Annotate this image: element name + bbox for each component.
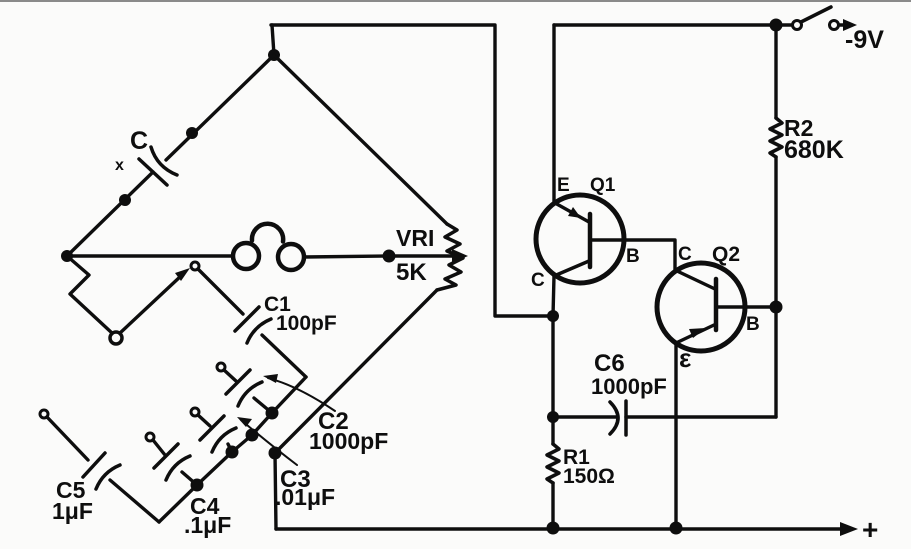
svg-text:C: C [130, 127, 148, 155]
node Q2 emitter bottom [670, 522, 683, 535]
capacitor C6 curved plate [610, 402, 618, 434]
leader arrowhead C3 [237, 417, 252, 427]
lamp right circle [278, 244, 304, 270]
capacitor C3 curved plate [212, 428, 236, 452]
node top junction [268, 49, 280, 61]
bottom rail arrowhead [840, 522, 858, 536]
capacitor C2 curved plate [238, 382, 262, 406]
capacitor C3 terminal circle [191, 408, 199, 416]
wire lamp to wiper node [304, 256, 389, 257]
capacitor C2 lead [224, 370, 236, 381]
node left [61, 250, 73, 262]
Q1 emitter inner line [555, 203, 589, 222]
Q2 emitter arrowhead [689, 328, 706, 338]
svg-text:Q2: Q2 [712, 243, 740, 266]
svg-text:C: C [531, 270, 545, 291]
leader arrow C2 [268, 378, 335, 411]
svg-text:.1μF: .1μF [184, 512, 231, 538]
capacitor C5 curved plate [96, 465, 120, 489]
capacitor C1 straight plate [235, 307, 259, 331]
wire diagonal upper-left to capacitor C [166, 55, 274, 160]
capacitor C6 right wire [626, 415, 776, 418]
capacitor C5 lead [47, 417, 88, 460]
transistor Q1 circle [536, 195, 624, 283]
capacitor C5 terminal circle [40, 410, 48, 418]
svg-text:B: B [626, 246, 640, 267]
svg-text:C: C [678, 244, 692, 265]
svg-text:VRI: VRI [396, 225, 434, 251]
svg-text:B: B [746, 314, 760, 335]
lamp left circle [233, 243, 259, 269]
terminal open circle bottom-left [110, 332, 122, 344]
svg-text:+: + [862, 514, 878, 545]
svg-text:ε: ε [679, 343, 691, 373]
wire R1 to bottom rail [551, 483, 554, 528]
capacitor C1 out wire to corner [262, 335, 306, 377]
Q1 collector lead [553, 276, 554, 316]
svg-text:680K: 680K [784, 136, 844, 164]
node wiper wire [383, 250, 396, 263]
capacitor C6 left wire [553, 415, 616, 418]
switch lever [801, 7, 831, 22]
wire R2 to Q2 base node [774, 157, 777, 307]
potentiometer VR1 zigzag [437, 224, 463, 290]
Q1 base bar [588, 214, 593, 267]
switch arrow to -9V [839, 23, 844, 26]
capacitor C2 terminal circle [217, 363, 225, 371]
node C4 junction [191, 479, 204, 492]
capacitor C1 curved plate [247, 319, 271, 343]
capacitor C4 out wire [182, 472, 197, 485]
lamp top loop [252, 224, 283, 242]
svg-text:C6: C6 [594, 350, 625, 377]
Q1 collector inner line [554, 261, 589, 276]
wiper arrowhead [452, 249, 468, 263]
node vertical top [269, 447, 282, 460]
wire top-right rail [554, 23, 794, 26]
Q2 emitter lead to bottom rail [674, 343, 677, 528]
svg-text:1000pF: 1000pF [591, 374, 667, 399]
Q2 emitter inner line [676, 325, 714, 343]
capacitor C4 terminal circle [146, 433, 154, 441]
node C2 junction [266, 407, 279, 420]
capacitor C4 lead [153, 440, 165, 455]
Q2 collector inner line [677, 271, 715, 289]
svg-text:5K: 5K [396, 259, 427, 286]
transistor Q2 circle [657, 263, 745, 351]
capacitor C4 curved plate [166, 456, 190, 480]
wire left horizontal [67, 254, 233, 257]
svg-text:E: E [557, 175, 570, 196]
resistor R1 zigzag [547, 444, 559, 483]
wire top-left rail [271, 25, 553, 316]
capacitor C1 lead [198, 269, 243, 314]
wire stub top junction [272, 25, 274, 55]
capacitor C5 straight plate [83, 453, 105, 477]
node C6 left [547, 411, 559, 423]
capacitor C2 out wire [254, 398, 272, 413]
node Q1 collector junction [547, 310, 559, 322]
capacitor C curved plate [151, 147, 177, 175]
node C3 junction [226, 446, 239, 459]
svg-text:.01μF: .01μF [275, 484, 335, 510]
switch pole circle [793, 21, 802, 30]
capacitor C3 straight plate [200, 416, 224, 440]
leader arrow C3 [241, 420, 297, 465]
capacitor C6 straight plate [624, 401, 628, 435]
selector arrow wire [120, 275, 182, 333]
node on diagonal lower [119, 194, 131, 206]
wire Q2 base node down to C6 [774, 307, 777, 417]
node R1 bottom [547, 522, 560, 535]
Q1 base wire to Q2 [592, 240, 675, 270]
wire R2 top [774, 25, 777, 118]
border top edge [0, 0, 911, 2]
bottom rail [276, 527, 842, 530]
leader arrowhead C2 [263, 374, 278, 383]
terminal open circle C1 [191, 262, 199, 270]
capacitor C2 straight plate [226, 370, 250, 394]
Q1 emitter arrowhead [568, 207, 581, 218]
capacitor C5 out wire [110, 480, 159, 522]
svg-text:1000pF: 1000pF [309, 428, 388, 454]
capacitor C straight plate [139, 159, 167, 185]
svg-text:-9V: -9V [845, 26, 884, 54]
svg-text:Q1: Q1 [590, 175, 616, 196]
wire vertical to bottom rail [275, 453, 276, 529]
svg-text:150Ω: 150Ω [563, 465, 615, 488]
svg-text:1μF: 1μF [52, 498, 93, 524]
node Q2 base junction [770, 301, 783, 314]
selector arrowhead [175, 268, 190, 281]
wire zigzag stub to terminal [67, 256, 112, 333]
Q2 base bar [714, 279, 719, 330]
resistor R2 zigzag [770, 118, 782, 157]
capacitor C3 lead [198, 415, 210, 426]
wire chain corner to C5 valley [159, 377, 306, 522]
capacitor C4 straight plate [154, 444, 178, 468]
node chain middle [246, 429, 259, 442]
wire long diagonal from VR1 bottom [275, 290, 437, 453]
wiper wire [389, 254, 455, 257]
Q2 base wire [717, 305, 776, 308]
wire from capacitor C to left node [67, 172, 153, 256]
node on diagonal upper [186, 127, 198, 139]
switch arrowhead [843, 19, 857, 31]
node battery rail [770, 19, 783, 32]
wire Q1 emitter vertical [552, 25, 555, 203]
svg-text:x: x [115, 157, 124, 174]
switch throw circle [830, 21, 839, 30]
wire to R1 [551, 417, 554, 444]
wire diagonal to VR1 top [274, 55, 447, 224]
capacitor C3 out wire [228, 444, 232, 452]
svg-text:100pF: 100pF [276, 312, 337, 335]
wire collector down to C6 node [551, 316, 554, 417]
